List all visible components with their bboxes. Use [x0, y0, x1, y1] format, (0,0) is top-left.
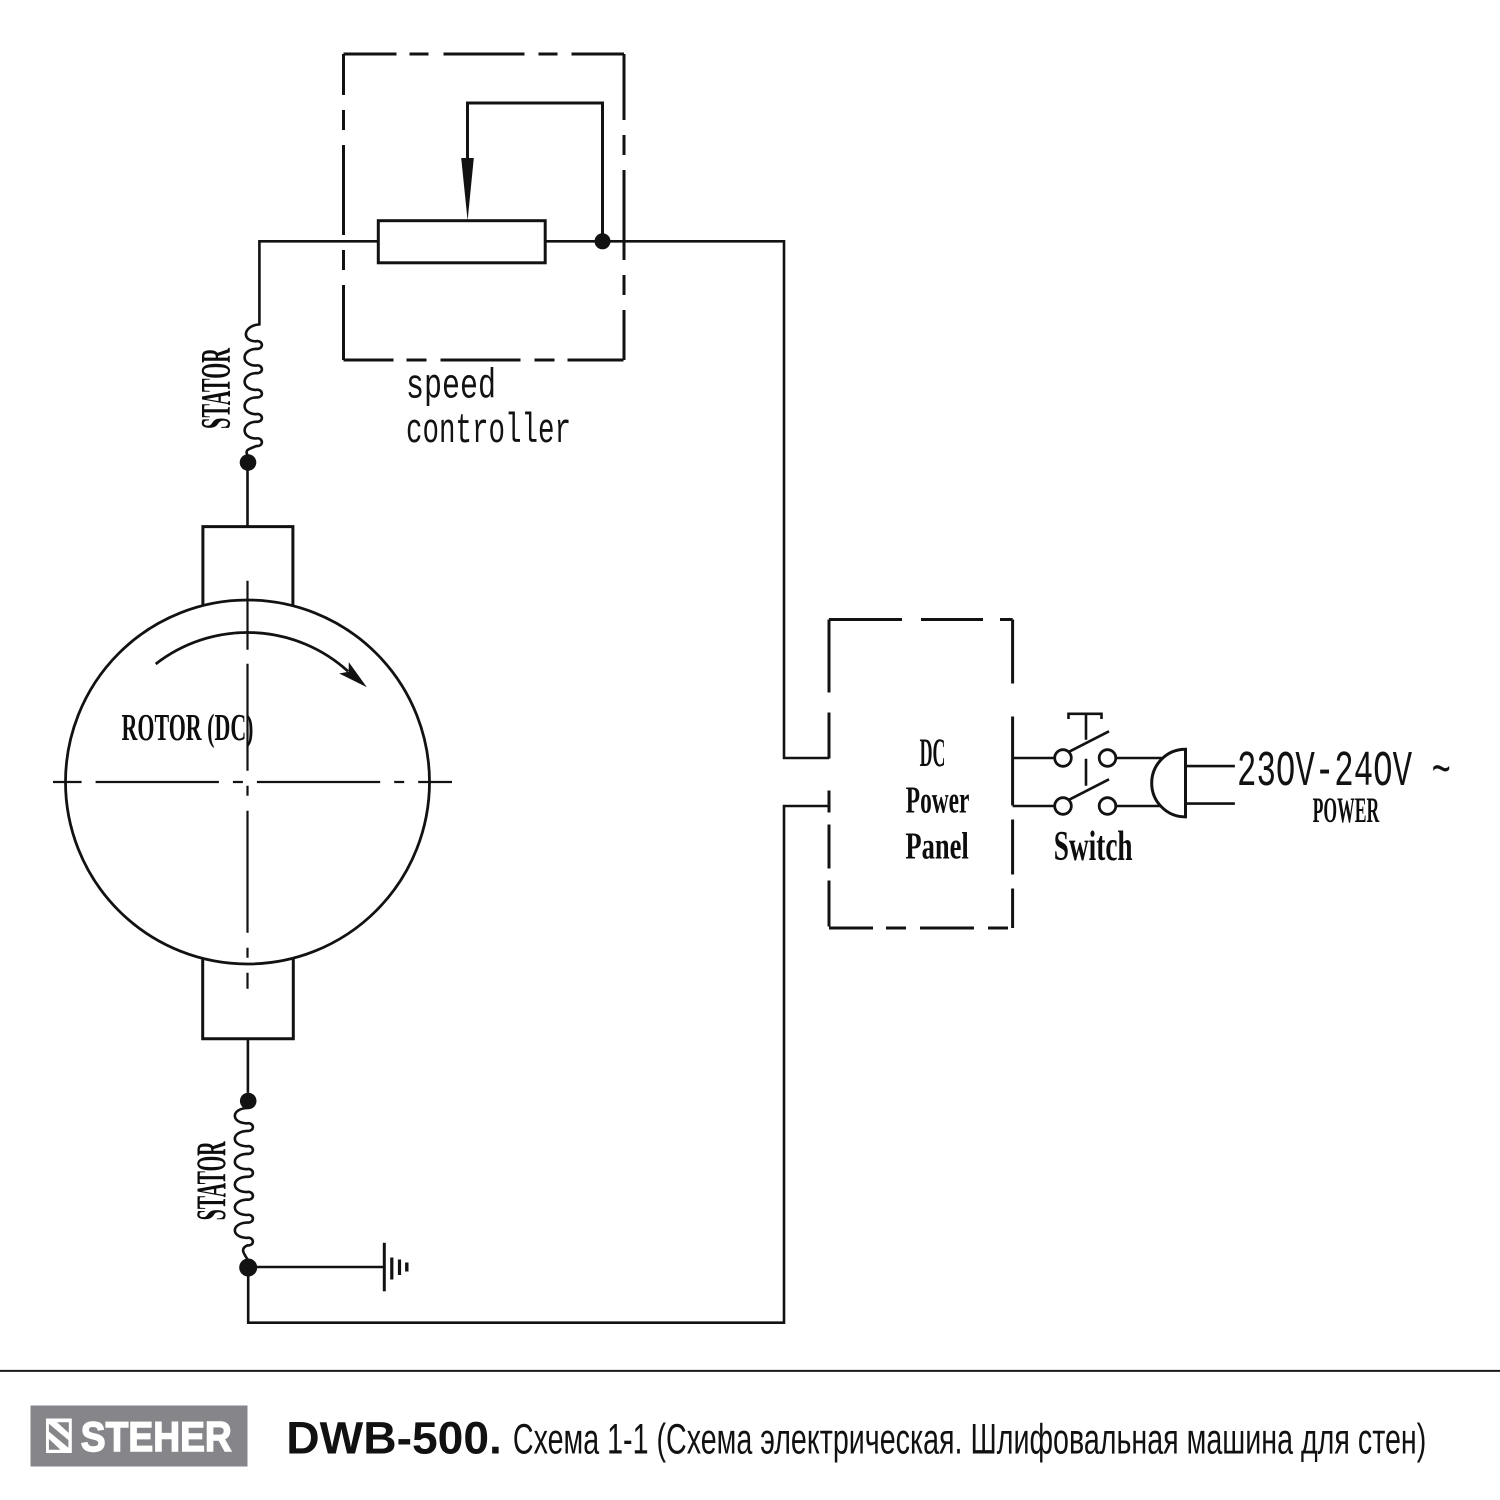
svg-text:Switch: Switch — [1054, 824, 1133, 870]
svg-text:ROTOR (DC): ROTOR (DC) — [122, 707, 254, 749]
svg-text:DC: DC — [920, 730, 946, 775]
svg-text:STATOR: STATOR — [190, 1141, 236, 1220]
svg-text:DWB-500.: DWB-500. — [286, 1413, 502, 1464]
svg-text:STATOR: STATOR — [194, 348, 240, 429]
svg-text:POWER: POWER — [1313, 790, 1380, 830]
svg-text:Power: Power — [906, 779, 970, 821]
svg-text:Схема 1-1 (Схема электрическая: Схема 1-1 (Схема электрическая. Шлифовал… — [513, 1416, 1426, 1464]
svg-text:controller: controller — [406, 407, 571, 455]
svg-text:STEHER: STEHER — [81, 1413, 232, 1460]
svg-text:speed: speed — [406, 363, 496, 411]
svg-text:Panel: Panel — [905, 826, 968, 868]
